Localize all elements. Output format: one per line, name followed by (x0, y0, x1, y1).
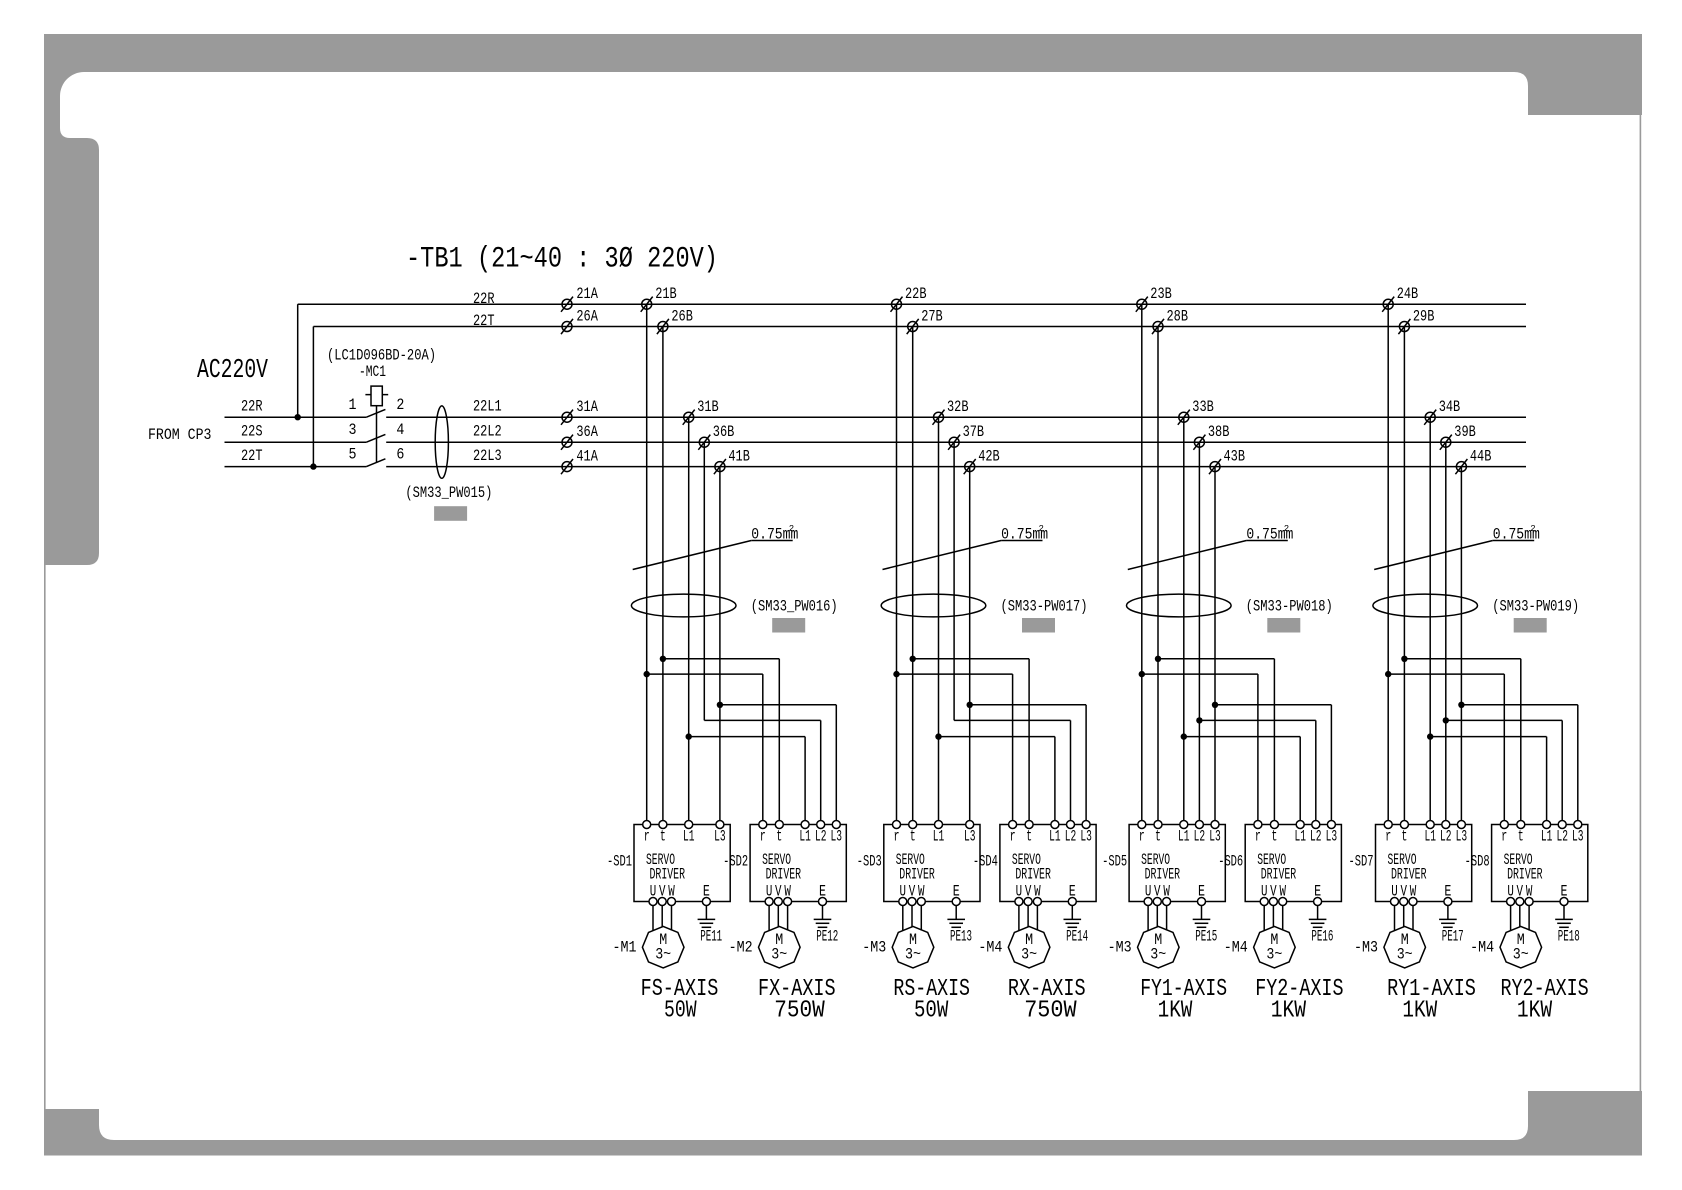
wire U to motor M1 (652, 906, 654, 931)
label 26A (576, 308, 598, 326)
servo driver SD3 box (884, 825, 980, 902)
svg-text:AC220V: AC220V (197, 356, 269, 386)
label 36B (713, 423, 735, 441)
svg-text:6: 6 (396, 445, 404, 463)
motor M3 (A) (892, 926, 934, 968)
svg-text:24B: 24B (1397, 285, 1419, 303)
svg-text:3~: 3~ (771, 946, 787, 964)
wire W to motor M4 (1282, 906, 1284, 931)
servo driver SD6 box (1245, 825, 1341, 902)
svg-text:V: V (1517, 883, 1524, 901)
contactor MC1 coil box (371, 386, 382, 406)
svg-text:50W: 50W (664, 998, 697, 1025)
svg-text:(LC1D096BD-20A): (LC1D096BD-20A) (327, 347, 436, 365)
motor M3 (A) (1384, 926, 1426, 968)
ground PE12 (814, 918, 832, 920)
pin E of SD5 (1198, 898, 1206, 906)
terminal 32B (934, 412, 944, 422)
wire 22T feed up to bus (312, 327, 314, 467)
frame: top band with left strip, left tab and top-right tab (44, 34, 1642, 565)
label (SM33-PW018) (1246, 598, 1333, 616)
label (SM33-PW017) (1001, 598, 1088, 616)
wire 42B branch down to SD-B (1085, 705, 1087, 825)
svg-text:L3: L3 (964, 828, 976, 846)
svg-text:750W: 750W (774, 998, 825, 1025)
contact blade 3-4 (366, 434, 385, 442)
pin U of SD5 (1144, 898, 1152, 906)
terminal 33B (1179, 412, 1189, 422)
svg-text:V: V (775, 883, 782, 901)
wire 31B drop to SD-A (688, 417, 690, 824)
svg-text:2: 2 (396, 396, 404, 414)
motor M2 (B) (759, 926, 801, 968)
wire 24B drop to SD-A (1387, 304, 1389, 824)
label 21A (576, 285, 598, 303)
contact pin 1 label (349, 396, 357, 414)
wire bus 22L1 (386, 416, 1526, 418)
label 22B (905, 285, 927, 303)
label 26B (671, 308, 693, 326)
svg-text:U: U (900, 883, 907, 901)
pin L2 of SD2 (817, 821, 825, 829)
wire E to ground PE15 (1201, 906, 1203, 920)
svg-text:27B: 27B (921, 308, 943, 326)
pin V of SD1 (658, 898, 666, 906)
wire 36B horizontal to SD-B L2 (704, 719, 820, 721)
wire 22S input (225, 441, 367, 443)
svg-text:E: E (703, 883, 710, 901)
motor M4 (B) (1500, 926, 1542, 968)
pin L3 of SD1 (716, 821, 724, 829)
ground PE18 (1555, 918, 1573, 920)
servo driver SD2 box (750, 825, 846, 902)
pin U of SD2 (765, 898, 773, 906)
junction 22B branch (893, 671, 899, 677)
pin L1 of SD8 (1543, 821, 1551, 829)
gray box under (SM33-PW019) (1514, 618, 1547, 633)
svg-text:44B: 44B (1470, 448, 1492, 466)
wire W to motor M3 (1412, 906, 1414, 931)
svg-text:43B: 43B (1224, 448, 1246, 466)
pin L3 of SD6 (1327, 821, 1335, 829)
contactor MC1 label (LC1D096BD-20A) (327, 347, 436, 365)
label 50W (664, 998, 697, 1025)
wire 22B drop to SD-A (896, 304, 898, 824)
servo driver SD7 box (1376, 825, 1472, 902)
pin E of SD8 (1560, 898, 1568, 906)
pin r of SD1 (643, 821, 651, 829)
label PE14 (1066, 927, 1088, 945)
svg-text:3~: 3~ (1513, 946, 1529, 964)
svg-text:22L2: 22L2 (473, 423, 502, 441)
label FX-AXIS (758, 976, 836, 1003)
pin t of SD8 (1517, 821, 1525, 829)
terminal 38B (1194, 437, 1204, 447)
svg-text:PE11: PE11 (700, 927, 722, 945)
label 33B (1192, 398, 1214, 416)
wire 33B branch down to SD-B (1299, 737, 1301, 825)
servo driver SD8 box (1492, 825, 1588, 902)
svg-text:L1: L1 (1541, 828, 1553, 846)
pin L1 of SD7 (1426, 821, 1434, 829)
wire 44B branch down to SD-B (1577, 705, 1579, 825)
wire 21B branch down to SD-B (762, 674, 764, 824)
terminal 26B (658, 322, 668, 332)
label FY1-AXIS (1140, 976, 1227, 1003)
pin E of SD2 (819, 898, 827, 906)
pin L3 of SD3 (966, 821, 974, 829)
wire 39B drop to SD-A (1445, 442, 1447, 824)
label 34B (1439, 398, 1461, 416)
wire 41B branch down to SD-B (835, 705, 837, 825)
wire 31B branch horizontal (689, 736, 805, 738)
pin U of SD4 (1015, 898, 1023, 906)
terminal 21B (642, 299, 652, 309)
label -M4 (1224, 939, 1248, 957)
wire 44B branch horizontal (1461, 704, 1577, 706)
svg-text:-M4: -M4 (1224, 939, 1248, 957)
svg-text:E: E (1198, 883, 1205, 901)
svg-text:41A: 41A (576, 448, 598, 466)
label -SD5 (1102, 853, 1127, 871)
svg-text:t: t (1271, 828, 1277, 846)
motor M1 (A) (642, 926, 684, 968)
label (SM33_PW015) (405, 484, 492, 502)
wire 33B branch horizontal (1184, 736, 1300, 738)
svg-text:50W: 50W (914, 998, 949, 1025)
svg-text:L1: L1 (1049, 828, 1061, 846)
wire 24B branch down to SD-B (1503, 674, 1505, 824)
contactor MC1 coil tick line (365, 394, 388, 396)
svg-text:t: t (660, 828, 666, 846)
svg-text:-M2: -M2 (729, 939, 753, 957)
pin L1 of SD6 (1296, 821, 1304, 829)
wire 38B branch down to SD-B (1315, 720, 1317, 824)
svg-text:PE12: PE12 (816, 927, 838, 945)
wire 37B horizontal to SD-B L2 (954, 719, 1070, 721)
svg-text:V: V (1025, 883, 1032, 901)
svg-text:L1: L1 (683, 828, 695, 846)
svg-text:36A: 36A (576, 423, 598, 441)
pin W of SD3 (917, 898, 925, 906)
wire 22R feed up to bus (297, 304, 299, 417)
servo driver SD1 box (634, 825, 730, 902)
ground PE11 (698, 918, 716, 920)
frame: thin left edge line (44, 565, 46, 1109)
wire U to motor M4 (1018, 906, 1020, 931)
label -SD2 (723, 853, 748, 871)
svg-text:-M3: -M3 (1354, 939, 1378, 957)
wire 23B branch horizontal (1142, 673, 1258, 675)
label 22L3 (473, 447, 502, 465)
label 44B (1470, 448, 1492, 466)
terminal 31B (684, 412, 694, 422)
wire bus 22L2 (386, 441, 1526, 443)
wire E to ground PE12 (822, 906, 824, 920)
wire 22B branch down to SD-B (1012, 674, 1014, 824)
wire 21B drop to SD-A (646, 304, 648, 824)
svg-text:(SM33-PW017): (SM33-PW017) (1001, 598, 1088, 616)
label -M3 (1354, 939, 1378, 957)
svg-text:5: 5 (349, 445, 357, 463)
terminal 39B (1441, 437, 1451, 447)
wire V to motor M3 (1156, 906, 1158, 928)
junction on 22T line (310, 463, 316, 469)
wire U to motor M3 (1394, 906, 1396, 931)
svg-text:3~: 3~ (1150, 946, 1166, 964)
svg-text:r: r (760, 828, 766, 846)
servo driver SD5 box (1129, 825, 1225, 902)
gray box under (SM33-PW017) (1022, 618, 1055, 633)
frame: thin right edge line (1640, 115, 1642, 1091)
svg-text:L1: L1 (933, 828, 945, 846)
wire 36B drop to corner (703, 442, 705, 720)
svg-text:t: t (1518, 828, 1524, 846)
label 29B (1413, 308, 1435, 326)
svg-text:39B: 39B (1454, 423, 1476, 441)
svg-text:26B: 26B (671, 308, 693, 326)
svg-text:U: U (1391, 883, 1398, 901)
junction 23B branch (1139, 671, 1145, 677)
terminal 21A (562, 299, 572, 309)
svg-text:-M4: -M4 (978, 939, 1002, 957)
label 1KW (1402, 998, 1437, 1025)
wire 37B down to SD-B L2 (1070, 720, 1072, 824)
wire bus 22L3 (386, 466, 1526, 468)
label 27B (921, 308, 943, 326)
pin t of SD5 (1154, 821, 1162, 829)
wire 22R input (225, 416, 367, 418)
wire 38B branch horizontal (1199, 719, 1315, 721)
pin E of SD4 (1068, 898, 1076, 906)
junction 21B branch (644, 671, 650, 677)
svg-text:1: 1 (349, 396, 357, 414)
contact blade 5-6 (366, 459, 385, 467)
wire-size leader line 0.75mm2 (883, 541, 1002, 570)
label SERVO DRIVER of SD1 (646, 851, 685, 884)
terminal 22B (892, 299, 902, 309)
svg-text:33B: 33B (1192, 398, 1214, 416)
label SERVO DRIVER of SD4 (1012, 851, 1051, 884)
svg-text:21B: 21B (655, 285, 677, 303)
svg-text:23B: 23B (1150, 285, 1172, 303)
svg-text:(SM33_PW015): (SM33_PW015) (405, 484, 492, 502)
pin W of SD5 (1163, 898, 1171, 906)
wire 32B branch down to SD-B (1054, 737, 1056, 825)
pin t of SD3 (909, 821, 917, 829)
terminal 44B (1456, 462, 1466, 472)
svg-text:3~: 3~ (905, 946, 921, 964)
svg-text:r: r (1139, 828, 1145, 846)
pin L1 of SD1 (685, 821, 693, 829)
wire V to motor M4 (1027, 906, 1029, 928)
svg-text:E: E (1314, 883, 1321, 901)
svg-text:-M4: -M4 (1470, 939, 1494, 957)
wire 42B drop to SD-A (969, 467, 971, 825)
pin E of SD7 (1444, 898, 1452, 906)
wire 29B branch horizontal (1404, 658, 1520, 660)
svg-text:L2: L2 (1194, 828, 1206, 846)
pin W of SD6 (1279, 898, 1287, 906)
wire 33B drop to SD-A (1183, 417, 1185, 824)
junction 34B branch (1427, 733, 1433, 739)
wire U to motor M3 (902, 906, 904, 931)
label 22L1 (473, 398, 502, 416)
pin W of SD8 (1525, 898, 1533, 906)
wire 27B branch down to SD-B (1028, 659, 1030, 825)
terminal 37B (949, 437, 959, 447)
svg-text:t: t (910, 828, 916, 846)
label 31B (697, 398, 719, 416)
wire V to motor M2 (777, 906, 779, 928)
pin r of SD5 (1138, 821, 1146, 829)
svg-text:22L3: 22L3 (473, 447, 502, 465)
label 0.75mm2 (1001, 524, 1048, 544)
svg-text:W: W (1410, 883, 1417, 901)
svg-text:DRIVER: DRIVER (766, 866, 802, 884)
svg-text:36B: 36B (713, 423, 735, 441)
label 22R (input) (241, 398, 263, 416)
label -M4 (978, 939, 1002, 957)
svg-text:U: U (650, 883, 657, 901)
label 41B (728, 448, 750, 466)
svg-text:L3: L3 (1080, 828, 1092, 846)
wire V to motor M4 (1519, 906, 1521, 928)
wire W to motor M4 (1528, 906, 1530, 931)
svg-text:22L1: 22L1 (473, 398, 502, 416)
label 22T (bus) (473, 312, 495, 330)
label -SD8 (1465, 853, 1490, 871)
wire E to ground PE14 (1071, 906, 1073, 920)
label 1KW (1517, 998, 1553, 1025)
motor M4 (B) (1008, 926, 1050, 968)
svg-text:DRIVER: DRIVER (1015, 866, 1051, 884)
junction 33B branch (1181, 733, 1187, 739)
label 750W (774, 998, 825, 1025)
wire W to motor M1 (671, 906, 673, 931)
svg-text:W: W (1163, 883, 1170, 901)
pin L2 of SD6 (1312, 821, 1320, 829)
wire W to motor M3 (920, 906, 922, 931)
cable marker (SM33-PW017) ellipse (881, 594, 986, 617)
svg-text:L2: L2 (1310, 828, 1322, 846)
pin L3 of SD2 (832, 821, 840, 829)
svg-text:FROM CP3: FROM CP3 (148, 426, 212, 444)
terminal 31A (562, 412, 572, 422)
label (SM33_PW016) (751, 598, 838, 616)
svg-text:L2: L2 (1556, 828, 1568, 846)
svg-text:2: 2 (1530, 524, 1535, 534)
svg-text:V: V (659, 883, 666, 901)
cable marker (SM33-PW018) ellipse (1127, 594, 1232, 617)
wire U to motor M4 (1510, 906, 1512, 931)
wire 28B branch down to SD-B (1273, 659, 1275, 825)
svg-text:1KW: 1KW (1271, 998, 1307, 1025)
svg-text:22S: 22S (241, 423, 263, 441)
svg-text:-SD6: -SD6 (1218, 853, 1243, 871)
terminal 42B (965, 462, 975, 472)
svg-text:U: U (1145, 883, 1152, 901)
terminal 43B (1210, 462, 1220, 472)
pin W of SD4 (1033, 898, 1041, 906)
label 41A (576, 448, 598, 466)
svg-text:L2: L2 (1440, 828, 1452, 846)
wire 36B down to SD-B L2 (820, 720, 822, 824)
junction 26B branch (660, 656, 666, 662)
label PE11 (700, 927, 722, 945)
label RY2-AXIS (1501, 976, 1589, 1003)
pin V of SD3 (908, 898, 916, 906)
pin E of SD1 (702, 898, 710, 906)
svg-text:4: 4 (396, 421, 404, 439)
label FS-AXIS (641, 976, 719, 1003)
svg-text:W: W (1526, 883, 1533, 901)
svg-text:U: U (1261, 883, 1268, 901)
wire 43B branch horizontal (1215, 704, 1331, 706)
wire 39B branch horizontal (1446, 719, 1562, 721)
wire U to motor M3 (1147, 906, 1149, 931)
junction 24B branch (1385, 671, 1391, 677)
svg-text:t: t (1155, 828, 1161, 846)
label SERVO DRIVER of SD3 (896, 851, 935, 884)
wire V to motor M1 (661, 906, 663, 928)
junction 29B branch (1401, 656, 1407, 662)
svg-text:-SD7: -SD7 (1349, 853, 1374, 871)
label SERVO DRIVER of SD8 (1504, 851, 1543, 884)
wire 26B branch horizontal (663, 658, 779, 660)
svg-text:-SD5: -SD5 (1102, 853, 1127, 871)
svg-text:DRIVER: DRIVER (1261, 866, 1297, 884)
label -SD6 (1218, 853, 1243, 871)
gray box under (SM33_PW016) (772, 618, 805, 633)
svg-text:L2: L2 (815, 828, 827, 846)
wire 23B branch down to SD-B (1257, 674, 1259, 824)
label 24B (1397, 285, 1419, 303)
svg-text:-SD2: -SD2 (723, 853, 748, 871)
pin L3 of SD7 (1457, 821, 1465, 829)
pin L1 of SD3 (935, 821, 943, 829)
wire 32B drop to SD-A (938, 417, 940, 824)
svg-text:L3: L3 (831, 828, 843, 846)
svg-text:V: V (909, 883, 916, 901)
pin L2 of SD7 (1442, 821, 1450, 829)
wire 26B branch down to SD-B (778, 659, 780, 825)
label 32B (947, 398, 969, 416)
svg-text:L3: L3 (714, 828, 726, 846)
terminal 36B (699, 437, 709, 447)
ground PE16 (1309, 918, 1327, 920)
svg-text:26A: 26A (576, 308, 598, 326)
terminal 27B (908, 322, 918, 332)
wire 41B branch horizontal (720, 704, 836, 706)
svg-text:r: r (894, 828, 900, 846)
pin L2 of SD5 (1195, 821, 1203, 829)
terminal 28B (1153, 322, 1163, 332)
wire E to ground PE11 (705, 906, 707, 920)
wire E to ground PE16 (1317, 906, 1319, 920)
junction 38B branch (1196, 717, 1202, 723)
pin t of SD6 (1270, 821, 1278, 829)
svg-text:E: E (819, 883, 826, 901)
svg-text:E: E (1561, 883, 1568, 901)
wire 39B branch down to SD-B (1561, 720, 1563, 824)
wire 38B drop to SD-A (1198, 442, 1200, 824)
svg-text:V: V (1154, 883, 1161, 901)
pin L1 of SD5 (1180, 821, 1188, 829)
svg-text:DRIVER: DRIVER (1145, 866, 1181, 884)
svg-text:2: 2 (1284, 524, 1289, 534)
label 50W (914, 998, 949, 1025)
